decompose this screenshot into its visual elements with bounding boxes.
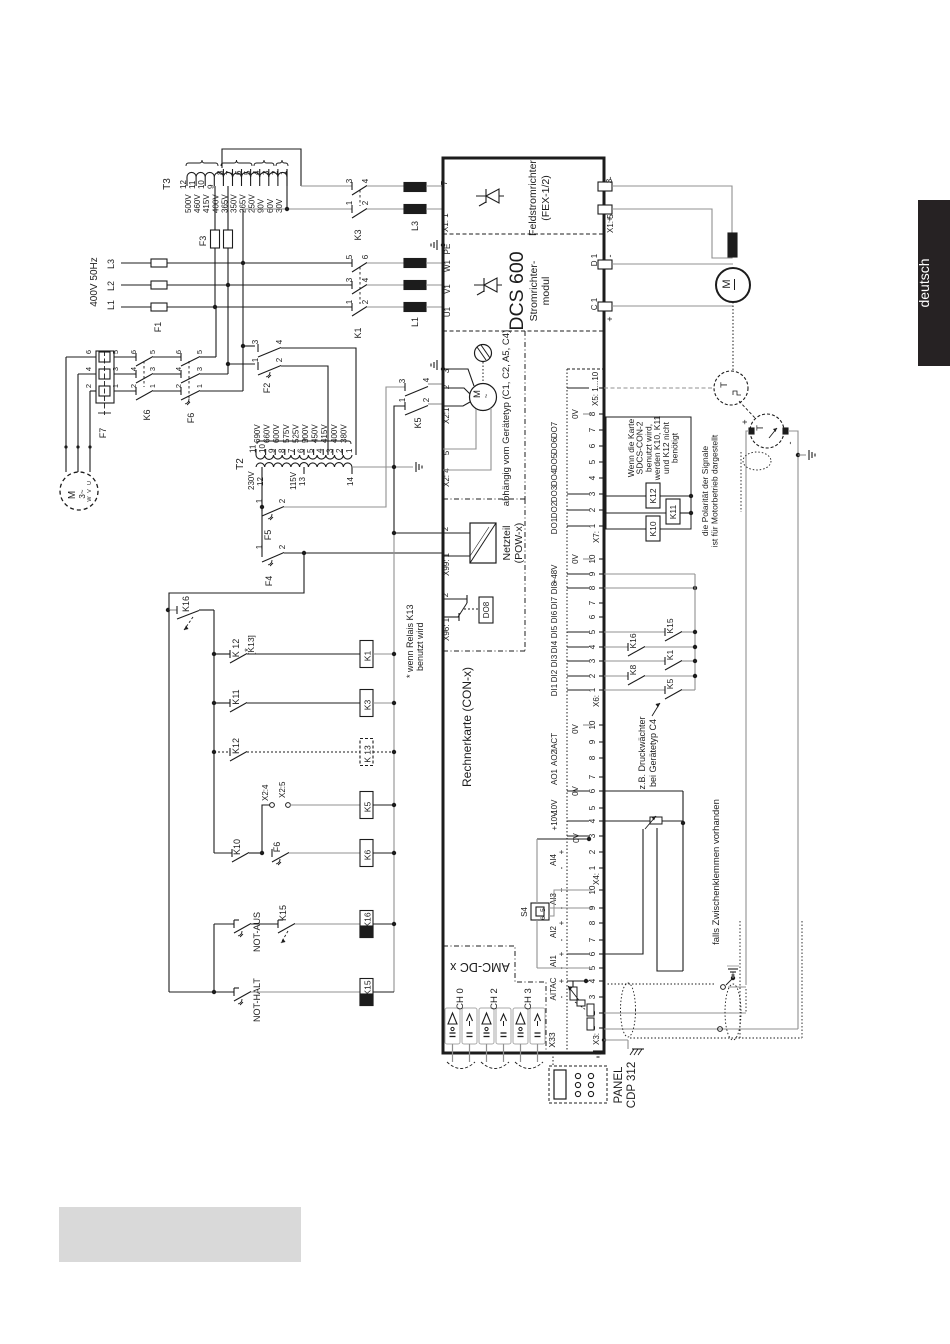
svg-text:5: 5 [540, 908, 547, 912]
svg-text:X1: 1: X1: 1 [441, 213, 450, 232]
svg-text:X7:: X7: [592, 531, 601, 543]
svg-text:DI1: DI1 [550, 683, 559, 696]
T2 secondary taps [247, 467, 355, 490]
svg-text:K5: K5 [363, 802, 373, 813]
svg-text:0V: 0V [571, 785, 580, 795]
svg-text:+: + [557, 951, 566, 956]
svg-text:+: + [557, 978, 566, 983]
svg-text:2: 2 [441, 526, 450, 531]
svg-text:M: M [67, 491, 78, 499]
wire K10 return [660, 528, 691, 530]
wire coil K6 to rail [373, 852, 394, 854]
wire fan phase1 [200, 307, 216, 357]
wire L2 rail [121, 284, 352, 286]
motor field winding [728, 233, 737, 257]
encoder cable X5 [604, 387, 714, 389]
svg-text:modul: modul [540, 277, 552, 306]
terminal strip dotted border [567, 369, 604, 1053]
power supply POW [470, 523, 525, 564]
svg-text:60V: 60V [266, 198, 275, 213]
analog tacho option [750, 414, 784, 448]
svg-text:660V: 660V [263, 424, 272, 443]
svg-text:2: 2 [361, 200, 370, 205]
wire L1 to U1 V1 W1 [426, 263, 443, 307]
wire S4 to AI3 [549, 890, 592, 916]
svg-text:+: + [605, 316, 615, 321]
svg-text:K5: K5 [413, 417, 423, 428]
wire K3 to L3 [367, 186, 404, 209]
wire DO3 to K12 [604, 495, 646, 497]
svg-text:115V: 115V [289, 471, 298, 490]
svg-text:falls Zwischenklemmen vorhande: falls Zwischenklemmen vorhanden [711, 799, 722, 945]
transformer T3 winding [162, 172, 287, 189]
svg-text:IACT: IACT [550, 733, 559, 751]
svg-text:9: 9 [206, 184, 215, 189]
svg-text:Feldstromrichter: Feldstromrichter [527, 160, 539, 236]
relay K11 external [666, 499, 680, 524]
wire tacho plus to X3:1 [604, 1027, 798, 1032]
svg-text:3: 3 [325, 448, 334, 453]
svg-text:K16: K16 [363, 912, 373, 927]
svg-text:PANEL: PANEL [613, 1066, 625, 1103]
wire coil K13 to rail [373, 751, 394, 753]
svg-text:bei Gerätetyp C4: bei Gerätetyp C4 [648, 719, 658, 787]
svg-text:4: 4 [174, 367, 183, 371]
section FEX labels [440, 160, 552, 236]
wire motor V [78, 374, 96, 472]
terminal C1 [590, 297, 615, 321]
svg-text:4: 4 [588, 644, 597, 649]
contactor K6 [129, 350, 181, 421]
shield drain dotted [740, 452, 742, 512]
scaling resistor X3:2 [587, 1004, 594, 1016]
svg-text:4: 4 [588, 818, 597, 823]
svg-text:3: 3 [588, 658, 597, 663]
svg-text:400V 50Hz: 400V 50Hz [89, 257, 100, 306]
wire F7 to K6 [114, 357, 136, 391]
svg-text:K12: K12 [648, 488, 658, 503]
X3 shield ground [593, 1038, 644, 1057]
svg-text:5: 5 [588, 459, 597, 464]
svg-text:10: 10 [258, 444, 267, 453]
svg-text:2: 2 [129, 384, 138, 388]
svg-text:K15: K15 [278, 905, 288, 921]
svg-text:1: 1 [588, 687, 597, 692]
wire X2:3 [441, 367, 474, 386]
DC motor M [716, 268, 750, 302]
svg-text:6: 6 [234, 170, 243, 175]
svg-text:DI2: DI2 [550, 669, 559, 682]
svg-text:benötigt: benötigt [670, 432, 680, 463]
svg-text:-: - [605, 255, 615, 258]
svg-text:1: 1 [251, 357, 260, 362]
svg-text:X2:1: X2:1 [442, 407, 451, 424]
svg-text:2: 2 [174, 384, 183, 388]
connector X4 analog outputs [549, 720, 604, 885]
svg-text:F2: F2 [262, 383, 272, 394]
section armature labels [443, 244, 552, 331]
note wenn Relais K13 [405, 604, 425, 678]
svg-text:5: 5 [442, 450, 451, 455]
wire L3 rail [121, 262, 352, 264]
svg-text:+: + [605, 216, 615, 221]
svg-text:AI2: AI2 [549, 925, 558, 938]
svg-text:DO3: DO3 [550, 485, 559, 502]
svg-text:F1: F1 [153, 322, 163, 333]
svg-text:DCS 600: DCS 600 [506, 251, 528, 330]
svg-text:3: 3 [588, 994, 597, 999]
T3 range braces [186, 160, 288, 166]
svg-text:[K13]: [K13] [246, 635, 256, 655]
wire X2:1 [443, 402, 470, 406]
svg-text:-: - [605, 177, 615, 180]
svg-text:DI6: DI6 [550, 610, 559, 623]
wire X1:3 to field [612, 186, 732, 234]
svg-text:AMC-DC x: AMC-DC x [449, 960, 509, 974]
svg-text:(POW-x): (POW-x) [513, 523, 525, 564]
svg-text:0V: 0V [571, 408, 580, 418]
footer gray box [59, 1207, 301, 1262]
junction L3 K3branch [241, 261, 245, 265]
contactor K5 [398, 377, 431, 428]
svg-text:3: 3 [345, 178, 354, 183]
wire coil K5 to rail [373, 804, 394, 806]
svg-text:L2: L2 [106, 281, 116, 291]
svg-text:benutzt wird: benutzt wird [415, 622, 425, 671]
wire X2:2 [443, 388, 470, 394]
svg-text:1: 1 [345, 200, 354, 205]
contactor K3 [345, 178, 370, 240]
wire DO1 to K10 [604, 528, 646, 530]
PE ground [431, 240, 445, 250]
svg-text:DO4: DO4 [550, 469, 559, 486]
wire 0V jumper bus [537, 837, 592, 968]
svg-text:AI1: AI1 [549, 954, 558, 967]
svg-text:2: 2 [361, 299, 370, 304]
svg-text:7: 7 [588, 774, 597, 779]
svg-text:NOT-HALT: NOT-HALT [252, 978, 262, 1022]
rung K1 with contact K12 [212, 635, 360, 663]
optional AITAC dotted [604, 983, 716, 985]
svg-text:K 12: K 12 [231, 639, 241, 658]
svg-text:DO1: DO1 [550, 517, 559, 534]
svg-text:-: - [557, 938, 566, 941]
svg-text:5: 5 [111, 350, 120, 354]
svg-text:8: 8 [588, 920, 597, 925]
svg-text:6: 6 [174, 350, 183, 354]
connector X6 digital inputs [550, 553, 604, 707]
svg-text:DO5: DO5 [550, 453, 559, 470]
deutsch language tab [916, 200, 950, 366]
pulse encoder option [714, 371, 748, 405]
svg-text:2: 2 [588, 673, 597, 678]
svg-text:4: 4 [422, 377, 431, 382]
svg-text:5: 5 [243, 170, 252, 175]
svg-text:2: 2 [84, 384, 93, 388]
svg-text:415V: 415V [202, 194, 211, 213]
svg-text:CH 3: CH 3 [523, 988, 534, 1010]
svg-text:3: 3 [261, 170, 270, 175]
svg-text:6: 6 [588, 788, 597, 793]
wire DI8 48V link [604, 586, 697, 590]
svg-text:380V: 380V [339, 424, 348, 443]
svg-text:5: 5 [345, 254, 354, 259]
svg-text:K15: K15 [363, 980, 373, 995]
svg-text:DO7: DO7 [550, 421, 559, 438]
svg-text:230V: 230V [247, 471, 256, 490]
svg-text:13: 13 [298, 477, 307, 486]
wire K5 to X2:1 [428, 403, 443, 405]
fan section border [443, 331, 525, 499]
wire coil K3 to rail [373, 702, 394, 704]
svg-text:die Polarität der Signale: die Polarität der Signale [700, 446, 710, 537]
svg-text:K11: K11 [668, 504, 678, 519]
svg-text:5: 5 [588, 805, 597, 810]
wire C1 to motor [612, 305, 733, 307]
svg-text:8: 8 [588, 755, 597, 760]
svg-text:1: 1 [148, 384, 157, 388]
wire tacho minus to X3:2 [604, 985, 746, 1013]
svg-text:0V: 0V [571, 553, 580, 563]
svg-text:6: 6 [361, 254, 370, 259]
svg-text:X33: X33 [547, 1032, 557, 1047]
svg-text:U1: U1 [443, 306, 452, 317]
junction AITAC+ [573, 979, 588, 987]
svg-text:K8: K8 [628, 665, 638, 676]
svg-text:+48V: +48V [550, 564, 559, 584]
note Wenn die Karte SDCS-CON-2 [626, 415, 680, 481]
svg-text:10: 10 [197, 180, 206, 189]
svg-text:3: 3 [398, 378, 407, 383]
svg-text:2: 2 [422, 397, 431, 402]
connector X5 encoder [567, 371, 604, 406]
wire 0V rail [393, 467, 395, 992]
tacho link [739, 401, 756, 419]
rung K16 with NOT-AUS and contact K15 [214, 905, 360, 952]
svg-text:z.B. Druckwächter: z.B. Druckwächter [637, 716, 647, 789]
svg-text:T3: T3 [162, 178, 173, 190]
svg-text:L3: L3 [106, 259, 116, 269]
wire K12 return [660, 494, 693, 498]
wire K5 pin1 to 0V rail [394, 406, 405, 467]
svg-text:(FEX-1/2): (FEX-1/2) [540, 175, 552, 221]
svg-text:W1: W1 [443, 259, 452, 272]
svg-text:DI8: DI8 [550, 581, 559, 594]
terminal X1:3 field out [598, 177, 615, 192]
T3 secondary taps 8..1 [216, 169, 289, 213]
svg-text:CH 0: CH 0 [455, 988, 466, 1010]
fiber optic channels [445, 988, 545, 1068]
svg-text:K10: K10 [648, 521, 658, 536]
relay K10 external [646, 516, 660, 541]
T3 primary taps 12 11 10 9 [179, 177, 220, 213]
wire K11 return [680, 511, 693, 515]
svg-text:4: 4 [252, 170, 261, 175]
ground T2 [415, 462, 417, 472]
svg-text:V: V [87, 489, 93, 493]
svg-text:1: 1 [345, 299, 354, 304]
wire X2:4 [443, 408, 491, 470]
svg-text:K3: K3 [363, 700, 373, 711]
svg-text:CDP 312: CDP 312 [626, 1062, 638, 1108]
wire fan phase2 [200, 285, 228, 374]
svg-text:DO2: DO2 [550, 501, 559, 518]
junction F2-b [226, 362, 230, 366]
DI supply bus [694, 574, 696, 690]
wire X99:1 in [443, 555, 470, 557]
svg-text:6: 6 [129, 350, 138, 354]
wire coil K1 to rail [373, 653, 394, 655]
svg-text:2: 2 [335, 448, 344, 453]
fuse F1 [151, 259, 167, 332]
svg-text:460V: 460V [193, 194, 202, 213]
svg-text:8: 8 [277, 448, 286, 453]
svg-text:AITAC: AITAC [549, 977, 558, 1000]
svg-text:90V: 90V [257, 198, 266, 213]
X3 cable shield [621, 983, 636, 1037]
svg-text:9: 9 [268, 448, 277, 453]
wire K5 to X2:2 [428, 383, 443, 385]
svg-text:525V: 525V [291, 424, 300, 443]
fuse block F7 [84, 350, 120, 438]
svg-text:7: 7 [287, 448, 296, 453]
svg-text:500V: 500V [301, 424, 310, 443]
svg-text:7: 7 [440, 180, 449, 185]
AMC-DC border [443, 946, 546, 1053]
svg-text:9: 9 [588, 571, 597, 576]
wire coil K15 to rail [373, 991, 394, 993]
svg-text:6: 6 [588, 443, 597, 448]
svg-text:2: 2 [588, 507, 597, 512]
svg-text:K12: K12 [231, 738, 241, 754]
panel CDP312 [549, 1062, 638, 1108]
rung K15 with NOT-HALT [169, 610, 360, 1022]
contact K1 on DI3 [604, 650, 697, 670]
svg-text:DO6: DO6 [550, 437, 559, 454]
shield pigtail ground [726, 966, 739, 985]
svg-text:Rechnerkarte (CON-x): Rechnerkarte (CON-x) [460, 667, 474, 787]
POW section border [443, 499, 525, 651]
svg-text:400V: 400V [211, 194, 220, 213]
svg-text:500V: 500V [184, 194, 193, 213]
wire DO2 to K11 [604, 512, 666, 514]
svg-text:F3: F3 [198, 236, 208, 247]
svg-text:U: U [87, 481, 93, 485]
svg-text:4: 4 [275, 339, 284, 344]
junction K16 rail [392, 922, 396, 926]
svg-text:11: 11 [188, 180, 197, 189]
contact K16 on DI4 [604, 633, 697, 656]
svg-text:4: 4 [361, 178, 370, 183]
svg-text:DO8: DO8 [482, 601, 491, 618]
junction K5 rail [392, 803, 396, 807]
svg-text:+: + [557, 920, 566, 925]
svg-text:690V: 690V [253, 424, 262, 443]
svg-text:+: + [740, 419, 750, 424]
svg-text:W: W [87, 496, 93, 502]
svg-text:400V: 400V [330, 424, 339, 443]
ground X2:3 [436, 360, 438, 370]
svg-text:X4:: X4: [592, 873, 601, 885]
junction K6 rail [392, 851, 396, 855]
breaker F5 [255, 474, 287, 540]
connector X7 digital outputs [550, 408, 604, 543]
svg-text:9: 9 [588, 739, 597, 744]
svg-text:F5: F5 [263, 530, 273, 541]
svg-text:5: 5 [588, 629, 597, 634]
relay coil K15 latched [360, 979, 373, 1006]
contact K16 latch [166, 596, 214, 630]
switch S4 [520, 903, 549, 920]
svg-text:DI7: DI7 [550, 596, 559, 609]
svg-text:4: 4 [588, 475, 597, 480]
internal fan motor [470, 345, 497, 411]
wire coil K16 to rail [373, 923, 394, 925]
wire F4 to X99:1 [284, 552, 443, 554]
svg-text:3: 3 [195, 367, 204, 371]
svg-text:6: 6 [297, 448, 306, 453]
svg-text:K11: K11 [231, 689, 241, 704]
breaker F2 [251, 339, 284, 393]
svg-text:K1: K1 [353, 327, 363, 338]
T2 primary taps [249, 424, 355, 455]
wire F5 to K5 [284, 387, 405, 507]
supply label 400V 50Hz [89, 257, 116, 310]
svg-text:6: 6 [84, 350, 93, 354]
svg-text:0V: 0V [571, 723, 580, 733]
X2 terminal labels [442, 368, 451, 487]
contact K15 on DI5 [604, 618, 697, 641]
wire motor W [90, 391, 96, 472]
svg-text:Stromrichter-: Stromrichter- [528, 260, 540, 321]
wire T3 tap9 via F3 to L1 [214, 186, 216, 307]
svg-text:D 1: D 1 [590, 253, 599, 266]
wire ladder bus [213, 610, 215, 853]
wire X1:5 to field [612, 209, 732, 258]
svg-text:-: - [557, 866, 566, 869]
tacho potentiometer R2201 [568, 986, 586, 1010]
DO 0V bus frame [604, 417, 691, 529]
wire tacho left [746, 431, 749, 985]
junction F3-L2 [226, 283, 230, 287]
fuse F3 [198, 230, 233, 248]
svg-text:K10: K10 [232, 839, 242, 855]
svg-text:4: 4 [84, 367, 93, 371]
wire L1 rail [121, 306, 352, 308]
svg-text:Netzteil: Netzteil [501, 525, 513, 560]
svg-text:AO1: AO1 [550, 768, 559, 785]
svg-text:K1: K1 [363, 651, 373, 662]
svg-text:DI4: DI4 [550, 640, 559, 653]
wire fan phase3 [200, 263, 243, 391]
rung K5 via X2:4 X2:5 [261, 781, 360, 853]
svg-text:X5: 1...10: X5: 1...10 [591, 371, 600, 406]
svg-text:12: 12 [179, 180, 188, 189]
wire X99:2 in [443, 532, 470, 534]
svg-text:3: 3 [148, 367, 157, 371]
wire +48V to DI bus [604, 573, 695, 575]
svg-text:2: 2 [588, 849, 597, 854]
svg-text:K6: K6 [363, 850, 373, 861]
svg-text:-: - [785, 442, 795, 445]
rung K6 with contacts K10 F6 [214, 839, 360, 865]
svg-text:6: 6 [540, 916, 547, 920]
rung K13 with contact K12 [212, 738, 360, 761]
svg-text:1: 1 [588, 865, 597, 870]
svg-text:3~: 3~ [78, 489, 87, 498]
svg-text:4: 4 [361, 277, 370, 282]
thyristor armature [474, 284, 502, 286]
